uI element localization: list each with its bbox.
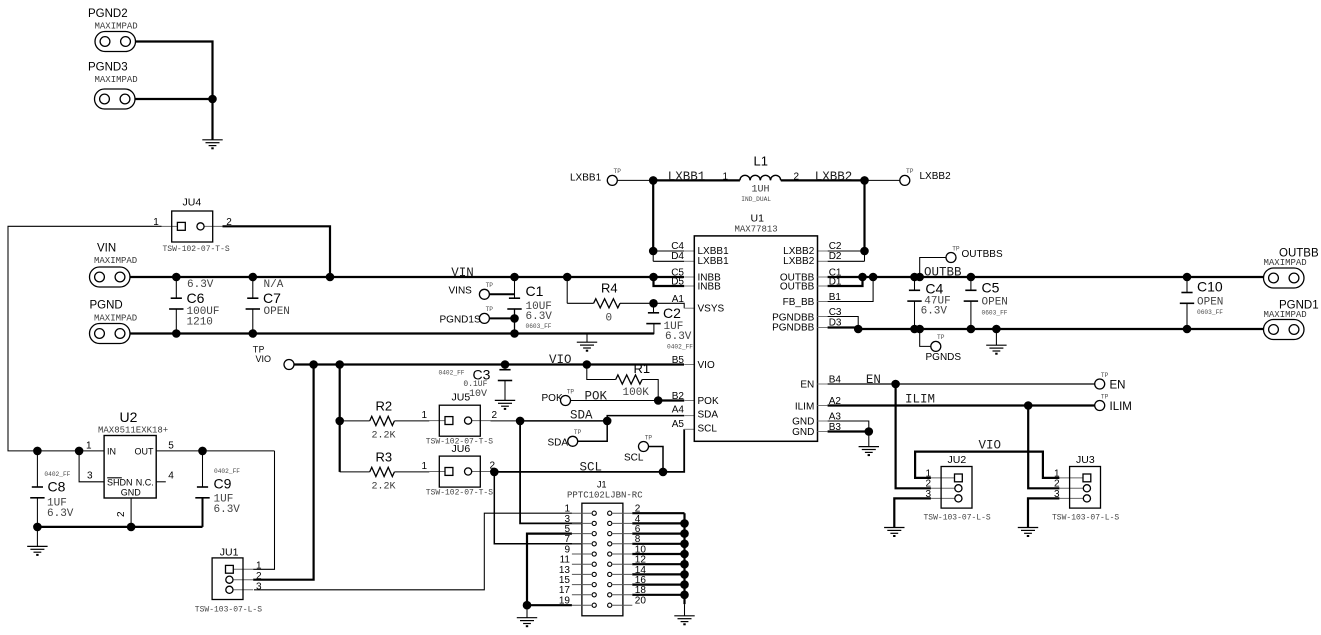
- svg-text:C1: C1: [526, 283, 544, 299]
- svg-text:5: 5: [168, 441, 174, 452]
- wire pin B1 FB_BB to OUTBB: [818, 301, 828, 303]
- wire PGND rail: [130, 332, 654, 334]
- resistor R4: [566, 277, 568, 303]
- svg-text:PPTC102LJBN-RC: PPTC102LJBN-RC: [567, 491, 643, 501]
- svg-text:TP: TP: [486, 306, 494, 313]
- wire LXBB2 to pins C2/D2: [863, 180, 865, 251]
- junction R2 node: [335, 417, 344, 426]
- svg-text:6.3V: 6.3V: [214, 504, 241, 516]
- svg-text:TP: TP: [486, 282, 494, 289]
- resistor R1: [587, 365, 616, 380]
- capacitor C6: [175, 277, 177, 298]
- wire JU2 pin3 to ground: [894, 498, 931, 527]
- svg-text:TP: TP: [645, 434, 653, 441]
- svg-text:1: 1: [422, 461, 428, 472]
- wire EN: [818, 383, 828, 385]
- svg-text:TSW-103-07-L-S: TSW-103-07-L-S: [195, 606, 262, 615]
- svg-text:0603_FF: 0603_FF: [526, 323, 552, 330]
- svg-text:R3: R3: [376, 450, 393, 465]
- svg-text:0603_FF: 0603_FF: [1197, 309, 1223, 316]
- svg-text:C5: C5: [982, 280, 1000, 296]
- svg-text:SCL: SCL: [580, 461, 603, 475]
- svg-text:GND: GND: [792, 417, 814, 428]
- svg-text:VIO: VIO: [549, 353, 572, 367]
- svg-text:JU2: JU2: [948, 454, 967, 466]
- svg-text:OPEN: OPEN: [1197, 296, 1223, 308]
- svg-text:VINS: VINS: [449, 286, 473, 297]
- svg-text:U2: U2: [120, 409, 138, 425]
- ground J1 right: [684, 604, 686, 616]
- svg-text:TSW-102-07-T-S: TSW-102-07-T-S: [426, 489, 493, 498]
- svg-text:J1: J1: [597, 480, 607, 490]
- capacitor C10: [1186, 277, 1188, 293]
- wire VIO to R2/R3: [339, 365, 341, 472]
- svg-text:IND_DUAL: IND_DUAL: [741, 196, 771, 203]
- junction LXBB2: [860, 176, 869, 185]
- wire POK testpoint: [571, 400, 659, 402]
- svg-text:2.2K: 2.2K: [372, 482, 396, 493]
- pin B5 VIO stub: [684, 364, 694, 366]
- wire SCL to pin A5: [663, 429, 684, 472]
- svg-text:B2: B2: [672, 391, 685, 402]
- svg-text:JU4: JU4: [183, 197, 202, 209]
- connector J1: [582, 503, 623, 616]
- svg-text:C8: C8: [48, 479, 66, 495]
- svg-text:R1: R1: [634, 361, 651, 376]
- capacitor C2: [653, 303, 655, 313]
- wire J1 pin5 to ground: [527, 534, 572, 606]
- svg-text:C7: C7: [263, 290, 281, 306]
- wire pin D3 PGNDBB: [818, 327, 828, 329]
- ground PGND rail: [586, 334, 588, 343]
- svg-text:6.3V: 6.3V: [47, 508, 74, 520]
- wire LXBB2: [781, 179, 865, 181]
- svg-text:OUTBB: OUTBB: [924, 266, 962, 280]
- jumper JU3: [1059, 477, 1083, 479]
- junction LXBB1: [649, 176, 658, 185]
- svg-text:FB_BB: FB_BB: [783, 297, 815, 308]
- svg-text:MAXIMPAD: MAXIMPAD: [94, 256, 137, 266]
- svg-text:SDA: SDA: [570, 409, 593, 423]
- svg-text:C2: C2: [663, 305, 681, 321]
- ground J1 left: [526, 605, 528, 617]
- svg-text:OUTBB: OUTBB: [780, 282, 815, 293]
- svg-text:2: 2: [116, 511, 127, 517]
- junction J1 ground left: [523, 601, 532, 610]
- wire SDA to pin A4: [607, 416, 684, 421]
- node PGND junctions: [172, 329, 181, 338]
- svg-text:2.2K: 2.2K: [372, 431, 396, 442]
- svg-text:C4: C4: [925, 281, 943, 297]
- svg-text:TP: TP: [567, 388, 575, 395]
- svg-text:LXBB1: LXBB1: [698, 256, 730, 267]
- svg-text:MAX8511EXK18+: MAX8511EXK18+: [98, 426, 168, 436]
- jumper JU5: [429, 420, 445, 422]
- wire JU3 pin3 to ground: [1028, 498, 1059, 527]
- resistor R3: [340, 471, 370, 473]
- svg-text:B5: B5: [672, 355, 685, 366]
- pin U2 N.C. stub: [156, 481, 166, 483]
- svg-text:ILIM: ILIM: [1110, 401, 1132, 413]
- svg-text:MAX77813: MAX77813: [735, 225, 778, 235]
- wire OUTBB rail: [818, 276, 828, 278]
- wire LXBB1 to pins C4/D4: [652, 180, 654, 251]
- testpoint LXBB2: [900, 175, 910, 185]
- svg-text:SDA: SDA: [698, 409, 719, 420]
- pad PGND3: [95, 89, 136, 109]
- svg-text:LXBB1: LXBB1: [668, 170, 706, 184]
- svg-text:0: 0: [606, 313, 613, 325]
- svg-text:TP: TP: [1101, 393, 1109, 400]
- wire ILIM: [818, 405, 828, 407]
- wire pin D1 to OUTBB: [818, 285, 828, 287]
- wire U1 GND pins: [818, 420, 828, 422]
- wire SDA from JU5 pin2: [491, 420, 521, 422]
- svg-text:6.3V: 6.3V: [526, 311, 553, 323]
- wire JU1 pin1 to U2 OUT: [253, 451, 274, 569]
- wire ILIM to JU3 pin2: [1028, 406, 1059, 489]
- ground PGNDBB rail: [995, 329, 997, 345]
- svg-text:6.3V: 6.3V: [665, 331, 692, 343]
- svg-text:C10: C10: [1197, 279, 1223, 295]
- svg-text:17: 17: [559, 585, 571, 596]
- junction POK node: [654, 396, 663, 405]
- svg-text:L1: L1: [754, 154, 768, 169]
- svg-text:0603_FF: 0603_FF: [982, 309, 1008, 316]
- wire PGNDBB rail: [858, 328, 1263, 330]
- wire junction down to ground: [211, 99, 213, 140]
- svg-text:1: 1: [723, 171, 729, 182]
- wire JU4 pin2 to VIN rail: [223, 226, 331, 277]
- wire SCL to J1 pin7: [494, 472, 582, 544]
- junction U1 GND: [865, 427, 874, 436]
- svg-text:GND: GND: [121, 488, 142, 498]
- svg-text:C9: C9: [214, 476, 232, 492]
- svg-text:LXBB2: LXBB2: [783, 256, 815, 267]
- svg-text:PGND1S: PGND1S: [440, 315, 481, 326]
- testpoint ILIM: [1095, 401, 1105, 411]
- svg-text:SCL: SCL: [698, 424, 718, 435]
- pad PGND1: [1264, 320, 1305, 340]
- svg-text:R4: R4: [601, 281, 618, 296]
- svg-text:TP: TP: [574, 429, 582, 436]
- svg-text:OUTBBS: OUTBBS: [962, 249, 1003, 260]
- testpoint EN: [1095, 379, 1105, 389]
- svg-text:PGNDS: PGNDS: [926, 352, 962, 363]
- svg-text:100K: 100K: [623, 387, 650, 399]
- node VIO junctions: [309, 360, 318, 369]
- wire VIO to JU2/JU3 pin1: [915, 452, 1059, 478]
- capacitor C8: [36, 451, 38, 487]
- pins J1 left stubs: [572, 513, 632, 605]
- ground JU3: [1018, 528, 1038, 537]
- wire to pin D5 INBB: [654, 277, 685, 286]
- svg-text:EN: EN: [866, 373, 881, 387]
- capacitor C9: [202, 451, 204, 487]
- jumper JU6: [429, 471, 445, 473]
- svg-text:VIO: VIO: [979, 439, 1002, 453]
- svg-text:TSW-102-07-T-S: TSW-102-07-T-S: [163, 245, 230, 254]
- svg-text:TP: TP: [952, 245, 960, 252]
- junction SCL nodes: [490, 468, 499, 477]
- svg-text:MAXIMPAD: MAXIMPAD: [95, 22, 138, 32]
- resistor R2: [340, 420, 370, 422]
- wire EN to JU2 pin2: [896, 384, 931, 488]
- junction C9 top: [198, 447, 207, 456]
- capacitor C4: [914, 277, 916, 290]
- svg-text:VIO: VIO: [256, 354, 272, 364]
- wire SDA to J1 pin3: [520, 421, 582, 524]
- svg-text:0.1UF: 0.1UF: [463, 380, 487, 389]
- wire J1 pin1 to JU1 pin3: [254, 513, 572, 590]
- node VIN junctions: [172, 273, 181, 282]
- svg-text:VIO: VIO: [698, 360, 715, 371]
- svg-text:1: 1: [86, 441, 92, 452]
- svg-text:TSW-103-07-L-S: TSW-103-07-L-S: [924, 514, 991, 523]
- svg-text:EN: EN: [800, 379, 814, 390]
- svg-text:PGND: PGND: [90, 300, 123, 312]
- svg-text:GND: GND: [792, 427, 814, 438]
- ic U1: [694, 236, 817, 441]
- pad PGND: [90, 324, 131, 344]
- pad PGND2: [95, 32, 136, 52]
- wire POK to pin B2: [658, 399, 684, 401]
- wire JU1 pin2 to VIO: [253, 365, 313, 580]
- node U2 IN junctions: [33, 447, 42, 456]
- wire PGND rail up to C2 bottom: [653, 323, 655, 334]
- svg-text:VIN: VIN: [451, 266, 474, 280]
- svg-text:VIN: VIN: [97, 243, 116, 255]
- svg-text:LXBB1: LXBB1: [570, 172, 602, 183]
- svg-text:SCL: SCL: [624, 453, 644, 464]
- wire VSYS to pin A1: [654, 303, 685, 308]
- svg-text:D2: D2: [829, 251, 842, 262]
- capacitor C3: [504, 365, 506, 370]
- svg-text:SHDN: SHDN: [107, 478, 133, 488]
- svg-text:OUT: OUT: [135, 447, 155, 457]
- svg-text:MAXIMPAD: MAXIMPAD: [94, 314, 137, 324]
- svg-text:PGNDBB: PGNDBB: [772, 323, 815, 334]
- wire U2 SHDN: [79, 451, 104, 482]
- junction J1 ground rail: [680, 519, 689, 528]
- svg-text:EN: EN: [1110, 380, 1126, 392]
- svg-text:1: 1: [422, 410, 428, 421]
- wire J1 right ground rail: [683, 513, 685, 604]
- svg-text:1UH: 1UH: [752, 185, 770, 196]
- svg-text:A4: A4: [672, 405, 685, 416]
- ground U1: [868, 432, 870, 447]
- svg-text:JU5: JU5: [452, 392, 471, 404]
- wire U2 GND pin: [130, 498, 132, 527]
- svg-text:1210: 1210: [187, 316, 213, 328]
- wire U2 OUT: [156, 450, 274, 452]
- svg-text:4: 4: [168, 471, 174, 482]
- svg-text:U1: U1: [751, 213, 765, 225]
- svg-text:N.C.: N.C.: [136, 478, 154, 488]
- svg-text:POK: POK: [698, 396, 719, 407]
- svg-text:TSW-103-07-L-S: TSW-103-07-L-S: [1052, 514, 1119, 523]
- wire SCL from JU6 pin2: [491, 471, 495, 473]
- junction PGND2/PGND3: [208, 95, 217, 104]
- svg-text:0402_FF: 0402_FF: [439, 370, 465, 377]
- svg-text:OPEN: OPEN: [264, 306, 290, 318]
- wire VIN rail: [130, 276, 684, 278]
- inductor L1: [740, 175, 781, 180]
- wire SDA testpoint: [578, 421, 608, 441]
- svg-text:ILIM: ILIM: [795, 402, 814, 413]
- ground C8: [36, 527, 38, 546]
- capacitor C7: [252, 277, 254, 298]
- svg-text:TP: TP: [614, 168, 622, 175]
- svg-text:VSYS: VSYS: [698, 304, 725, 315]
- wire U2 ground rail: [37, 526, 202, 528]
- ground PGND2/3: [202, 140, 222, 149]
- svg-text:PGND2: PGND2: [88, 8, 128, 20]
- svg-text:LXBB2: LXBB2: [815, 170, 853, 184]
- wire J1 even pins to ground rail: [632, 513, 684, 595]
- svg-text:MAXIMPAD: MAXIMPAD: [1264, 258, 1307, 268]
- jumper JU1: [233, 568, 253, 570]
- pad OUTBB: [1264, 268, 1305, 288]
- svg-text:D4: D4: [671, 251, 684, 262]
- node OUTBB junctions: [858, 273, 867, 282]
- svg-text:3: 3: [256, 582, 262, 593]
- svg-text:INBB: INBB: [698, 282, 722, 293]
- svg-text:20: 20: [635, 596, 647, 607]
- svg-text:2: 2: [492, 410, 498, 421]
- svg-text:1: 1: [256, 561, 262, 572]
- svg-text:TP: TP: [906, 168, 914, 175]
- junction ILIM: [1024, 401, 1033, 410]
- svg-text:10V: 10V: [469, 389, 487, 400]
- pin C5 INBB stub: [684, 276, 694, 278]
- svg-text:POK: POK: [585, 390, 608, 404]
- junction EN: [891, 380, 900, 389]
- jumper JU2: [931, 477, 955, 479]
- svg-text:PGND3: PGND3: [88, 62, 128, 74]
- junction ground rail: [33, 523, 42, 532]
- svg-text:POK: POK: [542, 393, 563, 404]
- pad VIN: [90, 267, 131, 287]
- svg-text:TP: TP: [937, 334, 945, 341]
- ground C3: [495, 400, 515, 409]
- svg-text:SDA: SDA: [548, 437, 569, 448]
- junction VSYS node: [649, 299, 658, 308]
- svg-text:0402_FF: 0402_FF: [44, 471, 70, 478]
- svg-text:0402_FF: 0402_FF: [214, 468, 240, 475]
- svg-text:JU6: JU6: [452, 443, 471, 455]
- ic U2: [104, 436, 156, 499]
- capacitor C1: [514, 277, 516, 298]
- wire pin C3 PGNDBB: [818, 316, 828, 318]
- svg-text:3: 3: [87, 471, 93, 482]
- svg-text:TP: TP: [1101, 372, 1109, 379]
- svg-text:OPEN: OPEN: [982, 297, 1008, 309]
- wire PGND3 to junction: [135, 98, 213, 100]
- wire VIO rail: [294, 363, 684, 365]
- wire PGND1S to C1 bottom node: [489, 317, 514, 319]
- junction PGND1S: [510, 314, 519, 323]
- svg-text:MAXIMPAD: MAXIMPAD: [95, 75, 138, 85]
- svg-text:0402_FF: 0402_FF: [667, 344, 693, 351]
- wire JU4 pin1 to U2 IN (left border): [8, 226, 162, 451]
- svg-text:6.3V: 6.3V: [921, 306, 948, 318]
- ground JU2: [884, 528, 904, 537]
- svg-text:LXBB2: LXBB2: [920, 171, 952, 182]
- junction SDA nodes: [516, 417, 525, 426]
- svg-text:D5: D5: [671, 277, 684, 288]
- node PGNDBB junctions: [854, 325, 863, 334]
- wire PGND2 to ground rail: [136, 42, 213, 100]
- svg-text:MAXIMPAD: MAXIMPAD: [1264, 310, 1307, 320]
- testpoint PGNDS: [920, 329, 931, 346]
- svg-text:IN: IN: [107, 447, 116, 457]
- svg-text:A1: A1: [672, 294, 685, 305]
- wire LXBB1: [617, 179, 653, 181]
- wire SCL testpoint: [649, 447, 664, 472]
- svg-text:JU1: JU1: [220, 547, 239, 559]
- capacitor C5: [970, 277, 972, 290]
- wire J1 pin19: [527, 604, 572, 606]
- svg-text:C6: C6: [187, 290, 205, 306]
- wire VINS to C1 node: [489, 293, 514, 295]
- svg-text:JU3: JU3: [1076, 454, 1095, 466]
- svg-text:ILIM: ILIM: [905, 393, 935, 407]
- svg-text:R2: R2: [376, 399, 393, 414]
- testpoint OUTBBS: [920, 258, 946, 278]
- svg-text:A5: A5: [672, 419, 685, 430]
- jumper JU4: [162, 225, 178, 227]
